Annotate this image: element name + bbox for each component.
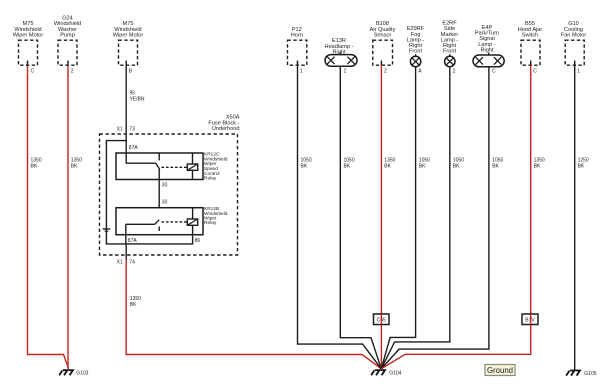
svg-text:Sensor: Sensor — [374, 33, 392, 39]
pump G24 windshield washer pump — [54, 15, 81, 65]
svg-text:C: C — [31, 69, 35, 75]
label 1350 BK on G24 wire — [71, 157, 82, 169]
wire M75-B to fuse block pin 87A — [125, 67, 127, 164]
svg-text:G103: G103 — [76, 371, 88, 377]
svg-text:BK: BK — [301, 163, 308, 169]
svg-text:Front: Front — [443, 49, 457, 55]
KR12C top contact stub — [158, 153, 160, 160]
connector label X1 73 — [117, 127, 135, 133]
horn P12 — [288, 27, 307, 65]
svg-text:Front: Front — [409, 49, 423, 55]
KR12B contact horizontal — [126, 223, 155, 225]
svg-text:2: 2 — [384, 69, 387, 75]
svg-text:30: 30 — [162, 199, 168, 205]
svg-text:87A: 87A — [129, 145, 139, 151]
svg-text:73: 73 — [129, 127, 135, 133]
label 1350 BK air quality wire — [384, 157, 395, 169]
relay KR12B windshield wiper relay — [116, 206, 228, 235]
svg-text:2: 2 — [344, 69, 347, 75]
wire red M75-C to G103 — [28, 66, 69, 369]
label 1050 BK park/turn wire — [492, 157, 503, 169]
wire P12 horn to G104 — [298, 62, 382, 369]
svg-text:Horn: Horn — [291, 33, 303, 39]
label 1050 BK fog wire — [419, 157, 430, 169]
wire G10 cooling fan to G105 — [574, 66, 576, 370]
svg-text:BK: BK — [71, 163, 78, 169]
svg-text:X1: X1 — [117, 260, 123, 266]
capacitor symbol on left branch — [103, 229, 111, 233]
svg-text:Relay: Relay — [204, 176, 217, 182]
ground label box — [485, 365, 515, 376]
svg-text:Wiper Motor: Wiper Motor — [113, 33, 144, 39]
svg-text:BK: BK — [344, 163, 351, 169]
wire E4P park/turn to G104 — [381, 67, 489, 369]
svg-text:C: C — [492, 69, 496, 75]
label 1050 BK headlamp wire — [344, 157, 355, 169]
wire fuse block exit black segment — [125, 244, 127, 260]
wire left branch down — [105, 140, 107, 245]
svg-text:YE/BN: YE/BN — [130, 96, 145, 102]
pin C of M75 — [28, 61, 35, 75]
svg-text:G104: G104 — [389, 370, 401, 376]
pin 2 of G24 — [68, 61, 74, 75]
wire red B108 to G104 — [380, 65, 382, 367]
KR12C coil control dashed line — [162, 166, 188, 168]
KR12B coil support line and pin 86 wire — [192, 208, 194, 245]
wire E13R headlamp to G104 — [340, 66, 381, 369]
wire E29RF fog lamp to G104 — [381, 67, 415, 369]
pin B of M75 second — [126, 61, 133, 75]
label 1350 BK on fuse block ground wire — [130, 296, 141, 308]
lamp E13R headlamp right — [325, 38, 357, 66]
connector C65 on B108 ground wire — [374, 314, 390, 325]
svg-text:Relay: Relay — [204, 220, 217, 226]
switch B55 hood ajar switch — [518, 21, 543, 65]
svg-text:BK: BK — [453, 163, 460, 169]
wire red from X1-74 down and right to G104 — [126, 260, 381, 369]
KR12B coil control dashed line — [162, 221, 188, 223]
svg-text:Wiper Motor: Wiper Motor — [13, 33, 44, 39]
lamp E2RF side marker lamp right front — [441, 21, 459, 67]
node junction branch to left rail — [106, 140, 126, 142]
svg-text:2: 2 — [453, 69, 456, 75]
label X50A fuse block underhood — [208, 115, 239, 133]
label 1350 BK on M75-C wire — [31, 157, 42, 169]
fuse block X50A dashed enclosure — [100, 134, 238, 255]
KR12B bottom contact stub — [158, 227, 160, 232]
label 1250 BK cooling fan wire — [578, 157, 589, 169]
pin 2 of B108 — [381, 61, 387, 75]
KR12C contact horizontal — [126, 162, 156, 164]
KR12C common wire down to 30 — [158, 169, 160, 207]
label 95 YE/BN — [130, 90, 145, 102]
svg-text:BK: BK — [534, 163, 541, 169]
svg-text:30: 30 — [162, 182, 168, 188]
svg-text:Ground: Ground — [487, 366, 513, 375]
KR12B 87A wire down — [125, 224, 127, 244]
svg-text:G105: G105 — [584, 371, 596, 377]
pin 1 of G10 — [575, 61, 581, 75]
label 1050 BK side marker wire — [453, 157, 464, 169]
svg-text:Switch: Switch — [522, 33, 538, 39]
wire ground rail inside fuse block — [106, 243, 193, 245]
svg-text:Pump: Pump — [60, 33, 75, 39]
svg-text:87A: 87A — [128, 238, 138, 244]
coil KR12C — [187, 164, 197, 170]
wire red G24 to G103 — [67, 66, 69, 369]
svg-text:C: C — [533, 69, 537, 75]
connector B1V on B55 ground wire — [522, 314, 538, 325]
svg-text:86: 86 — [195, 238, 201, 244]
wire E2RF side marker to G104 — [381, 67, 450, 369]
pin C of B55 — [531, 61, 538, 75]
label 1050 BK horn wire — [301, 157, 312, 169]
svg-text:BK: BK — [419, 163, 426, 169]
ground G103 — [59, 370, 88, 376]
svg-text:Fan Motor: Fan Motor — [561, 33, 587, 39]
KR12C coil support line — [192, 153, 194, 180]
coil KR12B — [187, 219, 197, 225]
KR12B switch blade — [155, 220, 159, 225]
ground G105 — [566, 371, 597, 377]
KR12C switch blade — [156, 163, 160, 169]
svg-text:BK: BK — [578, 163, 585, 169]
lamp E4P park/turn signal lamp right — [473, 25, 504, 67]
svg-text:Underhood: Underhood — [212, 126, 240, 132]
relay KR12C windshield wiper speed control relay — [116, 152, 228, 182]
pin 1 of P12 — [298, 61, 304, 75]
svg-text:1: 1 — [577, 69, 580, 75]
wire red B55 hood ajar to G104 bus — [381, 65, 530, 368]
connector label X1 74 — [117, 260, 135, 266]
svg-text:BK: BK — [492, 163, 499, 169]
label 1350 BK hood ajar wire — [534, 157, 545, 169]
svg-text:BK: BK — [130, 302, 137, 308]
svg-text:1: 1 — [300, 69, 303, 75]
lamp E29RF fog lamp right front — [407, 26, 425, 66]
svg-text:BK: BK — [31, 163, 38, 169]
svg-text:Right: Right — [480, 47, 494, 53]
motor M75 windshield wiper motor (left) — [13, 21, 44, 65]
motor G10 cooling fan motor — [561, 21, 587, 65]
svg-text:X1: X1 — [117, 127, 123, 133]
motor M75 windshield wiper motor (second) — [113, 21, 144, 65]
sensor B108 air quality sensor — [370, 21, 396, 65]
ground G104 — [371, 370, 401, 376]
svg-text:BK: BK — [384, 163, 391, 169]
svg-text:74: 74 — [129, 260, 135, 266]
svg-text:2: 2 — [71, 69, 74, 75]
